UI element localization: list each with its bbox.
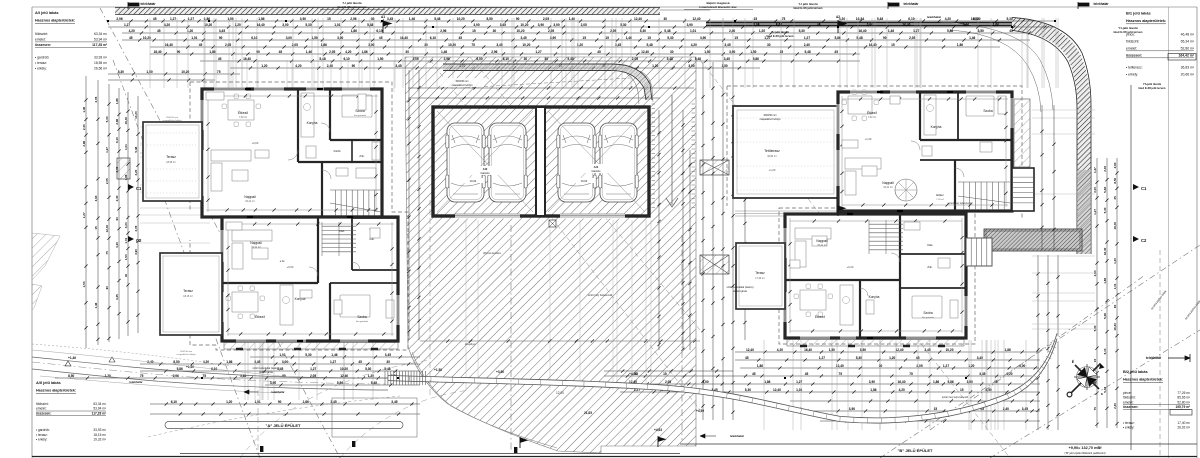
- svg-text:8,50: 8,50: [476, 57, 482, 61]
- building A lower stairs: [322, 226, 356, 252]
- svg-text:17,40 m²: 17,40 m²: [1177, 421, 1190, 425]
- svg-text:1,86: 1,86: [115, 98, 119, 104]
- svg-text:A2: A2: [836, 15, 840, 19]
- svg-text:5,48: 5,48: [856, 36, 862, 40]
- svg-text:1,86: 1,86: [933, 380, 939, 384]
- svg-text:3,45: 3,45: [500, 23, 506, 27]
- retaining wall darker lower zebra section: [1077, 170, 1091, 254]
- svg-text:Közl.: Közl.: [339, 229, 345, 233]
- svg-text:5,30: 5,30: [856, 356, 862, 360]
- svg-text:3,00: 3,00: [337, 36, 343, 40]
- terrace A upper: [143, 122, 202, 201]
- svg-text:16,40: 16,40: [859, 29, 867, 33]
- svg-text:8,50: 8,50: [1113, 177, 1117, 183]
- building A lower unit outer walls: [222, 217, 398, 341]
- svg-text:szomszédos telek: szomszédos telek: [1150, 289, 1168, 311]
- svg-text:33,93 m²: 33,93 m²: [94, 55, 108, 59]
- svg-text:+3,50: +3,50: [496, 370, 504, 374]
- svg-text:5,48: 5,48: [434, 17, 440, 21]
- svg-text:1,27: 1,27: [819, 356, 825, 360]
- svg-text:90: 90: [278, 400, 282, 404]
- extra road contours: [32, 350, 290, 393]
- svg-text:12,40: 12,40: [105, 225, 109, 233]
- svg-text:±0,00: ±0,00: [470, 179, 477, 183]
- svg-text:1,50: 1,50: [124, 254, 128, 260]
- svg-text:46,48 m²: 46,48 m²: [1181, 33, 1195, 37]
- svg-text:3,45: 3,45: [391, 400, 397, 404]
- svg-text:117,28 m²: 117,28 m²: [92, 411, 106, 415]
- svg-text:szórt burkolattal (kavics): szórt burkolattal (kavics): [253, 367, 280, 370]
- svg-text:1,01: 1,01: [254, 400, 260, 404]
- svg-text:90: 90: [105, 286, 109, 290]
- vertical chains garage east: [658, 110, 660, 350]
- building B lower partitions: [899, 215, 901, 337]
- svg-text:2,40: 2,40: [82, 124, 86, 130]
- svg-text:1,27: 1,27: [804, 36, 810, 40]
- svg-text:3,90: 3,90: [1093, 270, 1097, 276]
- svg-text:térkő hely fektetendő: térkő hely fektetendő: [588, 293, 613, 297]
- svg-text:45: 45: [817, 23, 821, 27]
- windows B lower: [800, 337, 830, 340]
- svg-text:53,94 m²: 53,94 m²: [93, 407, 106, 411]
- svg-text:1,86: 1,86: [1005, 348, 1011, 352]
- svg-text:1,86: 1,86: [1103, 278, 1107, 284]
- svg-text:2,40: 2,40: [1003, 407, 1009, 411]
- svg-text:5,86: 5,86: [776, 23, 782, 27]
- property boundary hatched band (top): [115, 8, 660, 15]
- svg-text:1,46: 1,46: [441, 50, 447, 54]
- svg-text:16,40: 16,40: [154, 50, 162, 54]
- svg-text:1,01: 1,01: [1113, 283, 1117, 289]
- svg-text:1,50: 1,50: [311, 36, 317, 40]
- svg-text:3,90: 3,90: [849, 407, 855, 411]
- svg-text:A1: A1: [381, 15, 385, 19]
- svg-text:1,86: 1,86: [258, 17, 264, 21]
- svg-text:telekhatár: telekhatár: [1146, 356, 1162, 360]
- svg-text:3,00: 3,00: [368, 43, 374, 47]
- svg-text:ismertetését átvezető rész: ismertetését átvezető rész: [699, 5, 737, 9]
- svg-text:3,00: 3,00: [282, 23, 288, 27]
- dashed site boundary diagonals: [100, 8, 340, 458]
- svg-text:3,90: 3,90: [134, 249, 138, 255]
- svg-text:5,48: 5,48: [1103, 313, 1107, 319]
- road level marks: [65, 357, 115, 366]
- value column separator (right): [1168, 7, 1170, 458]
- svg-text:30: 30: [544, 57, 548, 61]
- misc annotation labels: [440, 78, 484, 87]
- svg-text:4,20: 4,20: [345, 50, 351, 54]
- svg-text:lásd E-06 jelű terven: lásd E-06 jelű terven: [1113, 30, 1142, 34]
- svg-text:7,20 m²: 7,20 m²: [936, 198, 944, 201]
- svg-text:+1,20: +1,20: [769, 168, 776, 172]
- svg-text:2,96: 2,96: [350, 17, 356, 21]
- svg-text:12,40: 12,40: [896, 348, 904, 352]
- svg-text:1,46: 1,46: [306, 50, 312, 54]
- svg-text:emelet:: emelet:: [36, 407, 47, 411]
- car 3 (garage A/1): [557, 123, 596, 202]
- svg-text:10,20: 10,20: [973, 17, 981, 21]
- svg-text:1,86: 1,86: [209, 50, 215, 54]
- svg-text:90: 90: [1113, 304, 1117, 308]
- svg-text:ellátott járda: ellátott járda: [733, 290, 747, 293]
- svg-text:15: 15: [934, 407, 938, 411]
- garage doors (south): [455, 214, 520, 219]
- property line (right vertical): [1130, 85, 1132, 450]
- drain symbol below garage: [549, 220, 556, 227]
- svg-text:lásd E-06 jelű terven: lásd E-06 jelű terven: [337, 5, 366, 9]
- svg-text:2,40: 2,40: [1103, 166, 1107, 172]
- garden steps at path start: [385, 371, 426, 385]
- svg-text:90: 90: [177, 50, 181, 54]
- furniture A upper: [228, 100, 254, 120]
- road edge curves bottom-left: [32, 357, 388, 390]
- svg-text:150/150 mm: 150/150 mm: [455, 80, 468, 83]
- svg-text:2,05: 2,05: [753, 23, 759, 27]
- entry block east of B upper: [1012, 168, 1034, 211]
- svg-text:1,86: 1,86: [361, 50, 367, 54]
- svg-text:Szoba: Szoba: [357, 315, 367, 319]
- svg-text:2,05: 2,05: [543, 17, 549, 21]
- svg-text:5,30: 5,30: [118, 70, 124, 74]
- svg-text:5,48: 5,48: [804, 50, 810, 54]
- svg-text:4,20: 4,20: [115, 242, 119, 248]
- svg-text:45: 45: [1113, 196, 1117, 200]
- svg-text:30: 30: [124, 274, 128, 278]
- svg-text:• terasz:: • terasz:: [35, 61, 47, 65]
- svg-text:12,40: 12,40: [746, 348, 754, 352]
- svg-text:10,20: 10,20: [457, 17, 465, 21]
- svg-text:3,45: 3,45: [330, 400, 336, 404]
- svg-text:16,40: 16,40: [804, 348, 812, 352]
- terrace A lower: [160, 253, 222, 335]
- svg-text:Étkező: Étkező: [867, 110, 877, 115]
- svg-text:3,90: 3,90: [860, 348, 866, 352]
- svg-text:150/150 mm: 150/150 mm: [180, 351, 192, 353]
- svg-text:1,27: 1,27: [310, 367, 316, 371]
- svg-text:52,80 m²: 52,80 m²: [1177, 400, 1190, 404]
- svg-text:földszint:: földszint:: [36, 402, 49, 406]
- windows A lower: [236, 340, 266, 343]
- box outline bottom-center: [332, 398, 417, 437]
- svg-text:5,48: 5,48: [664, 29, 670, 33]
- svg-text:ellátott járda: ellátott járda: [259, 371, 273, 374]
- svg-text:45: 45: [153, 17, 157, 21]
- vertical chains at hatch west edge: [408, 70, 410, 340]
- svg-text:16,40: 16,40: [1103, 247, 1107, 255]
- svg-text:B/1 jelű lakás: B/1 jelű lakás: [1126, 11, 1151, 16]
- svg-text:8,50: 8,50: [978, 29, 984, 33]
- svg-text:12,40: 12,40: [641, 50, 649, 54]
- center vertical chains: [702, 62, 704, 420]
- hatched paved courtyard (central): [405, 57, 696, 453]
- svg-text:15: 15: [327, 17, 331, 21]
- svg-text:Terasz: Terasz: [183, 289, 193, 293]
- building B upper unit outer walls: [838, 92, 1012, 211]
- svg-text:1,46: 1,46: [331, 353, 337, 357]
- svg-text:4,20: 4,20: [124, 222, 128, 228]
- svg-text:épített hely fejlesztendő: épített hely fejlesztendő: [947, 202, 973, 205]
- text block A/I (top-left): [35, 10, 108, 71]
- windows A upper: [214, 88, 246, 91]
- svg-text:±0,00: ±0,00: [581, 179, 588, 183]
- svg-text:15: 15: [605, 36, 609, 40]
- svg-text:4,20: 4,20: [295, 64, 301, 68]
- svg-text:• erkély:: • erkély:: [1123, 426, 1135, 430]
- svg-text:4,20: 4,20: [164, 23, 170, 27]
- svg-text:5,86: 5,86: [947, 29, 953, 33]
- svg-text:2,40: 2,40: [327, 64, 333, 68]
- svg-text:45: 45: [218, 57, 222, 61]
- svg-text:30: 30: [879, 364, 883, 368]
- svg-text:Kélé: Kélé: [927, 243, 933, 247]
- svg-text:• terasz:: • terasz:: [1123, 421, 1135, 425]
- svg-text:10,20: 10,20: [204, 23, 212, 27]
- svg-text:2,05: 2,05: [225, 43, 231, 47]
- svg-text:15: 15: [780, 50, 784, 54]
- svg-text:1,01: 1,01: [191, 36, 197, 40]
- svg-text:1,20: 1,20: [1113, 258, 1117, 264]
- svg-text:30 jeső kezelés: 30 jeső kezelés: [483, 251, 502, 255]
- svg-text:3,90: 3,90: [869, 380, 875, 384]
- svg-text:1,86: 1,86: [764, 380, 770, 384]
- svg-text:1,20: 1,20: [889, 356, 895, 360]
- svg-text:1,27: 1,27: [1093, 209, 1097, 215]
- svg-text:telekhatár: telekhatár: [1093, 2, 1109, 6]
- svg-text:164,42 m²: 164,42 m²: [1179, 54, 1195, 58]
- svg-text:15: 15: [891, 43, 895, 47]
- svg-text:Terasz: Terasz: [166, 155, 176, 159]
- svg-text:5,48: 5,48: [1103, 187, 1107, 193]
- extra furniture A upper: [206, 92, 224, 100]
- svg-text:117,28 m²: 117,28 m²: [92, 43, 108, 47]
- svg-text:lásd E-06 jelű terven: lásd E-06 jelű terven: [793, 6, 822, 10]
- svg-text:16,40: 16,40: [898, 380, 906, 384]
- svg-text:2,05: 2,05: [916, 364, 922, 368]
- svg-text:1,86: 1,86: [757, 364, 763, 368]
- svg-text:1,01: 1,01: [334, 23, 340, 27]
- svg-text:köz.garázda: köz.garázda: [354, 114, 367, 117]
- svg-text:16,40: 16,40: [400, 36, 408, 40]
- svg-text:4,20: 4,20: [777, 348, 783, 352]
- svg-text:+1,40: +1,40: [186, 365, 194, 369]
- svg-text:90: 90: [883, 36, 887, 40]
- svg-text:4,20: 4,20: [129, 29, 135, 33]
- svg-text:+0,00: +0,00: [252, 141, 259, 145]
- svg-text:Tetőterasz: Tetőterasz: [764, 149, 780, 153]
- svg-text:3,00: 3,00: [282, 360, 288, 364]
- svg-text:Garázs: Garázs: [480, 171, 490, 175]
- svg-text:+4,59: +4,59: [696, 409, 704, 413]
- svg-text:"A" JELŰ ÉPÜLET: "A" JELŰ ÉPÜLET: [266, 423, 301, 428]
- roof overhang building A (dashed): [190, 82, 408, 350]
- svg-text:Konyha: Konyha: [307, 121, 318, 125]
- svg-text:"B" JELŰ ÉPÜLET: "B" JELŰ ÉPÜLET: [898, 448, 933, 453]
- svg-text:10,20: 10,20: [946, 348, 954, 352]
- svg-text:3,45: 3,45: [1022, 407, 1028, 411]
- entry steps east of B lower: [966, 238, 992, 266]
- svg-text:szórt burkolattal (kavics): szórt burkolattal (kavics): [727, 286, 754, 289]
- svg-text:Hasznos alapterületek:: Hasznos alapterületek:: [1126, 19, 1166, 23]
- svg-text:C2: C2: [136, 238, 142, 243]
- svg-text:1,20: 1,20: [652, 64, 658, 68]
- svg-text:45: 45: [129, 36, 133, 40]
- svg-text:telekhatár: telekhatár: [730, 434, 745, 438]
- svg-text:20,66 m²: 20,66 m²: [1181, 73, 1195, 77]
- svg-text:Hasznos alapterületek:: Hasznos alapterületek:: [36, 389, 76, 393]
- svg-text:2,96: 2,96: [82, 140, 86, 146]
- svg-text:2,05: 2,05: [94, 96, 98, 102]
- svg-text:5,86: 5,86: [753, 57, 759, 61]
- svg-text:6,10: 6,10: [343, 57, 349, 61]
- bottom title rules: [680, 443, 1197, 445]
- svg-text:15: 15: [734, 36, 738, 40]
- svg-text:2,05: 2,05: [412, 57, 418, 61]
- svg-text:telekhatár: telekhatár: [903, 2, 919, 6]
- svg-text:Előtér: Előtér: [936, 193, 943, 197]
- svg-text:5,86: 5,86: [240, 374, 246, 378]
- svg-text:kéz.garázda: kéz.garázda: [356, 320, 369, 323]
- svg-text:3,00: 3,00: [702, 380, 708, 384]
- svg-text:16,40: 16,40: [869, 43, 877, 47]
- svg-text:1,86: 1,86: [226, 360, 232, 364]
- svg-text:12,40: 12,40: [340, 374, 348, 378]
- svg-text:Zuh.: Zuh.: [359, 154, 364, 158]
- svg-text:45: 45: [1009, 29, 1013, 33]
- text block B/2 (bottom-right): [1123, 369, 1190, 430]
- svg-text:épület hely képviselendő: épület hely képviselendő: [942, 396, 969, 399]
- svg-text:1,01: 1,01: [690, 29, 696, 33]
- svg-text:2,05: 2,05: [548, 29, 554, 33]
- svg-text:33,93 m²: 33,93 m²: [93, 428, 106, 432]
- svg-text:+0,00: +0,00: [287, 265, 294, 269]
- svg-text:1,27: 1,27: [124, 23, 130, 27]
- svg-text:150/150 mm: 150/150 mm: [763, 114, 776, 117]
- svg-text:emelet:: emelet:: [1123, 400, 1134, 404]
- garage labels: [472, 166, 498, 175]
- svg-text:Fürdő: Fürdő: [334, 149, 341, 153]
- svg-text:csapadékvíz lefolyó: csapadékvíz lefolyó: [452, 84, 474, 87]
- svg-text:+9,90= 132,70 mBf: +9,90= 132,70 mBf: [1069, 446, 1103, 450]
- svg-text:földszint:: földszint:: [1126, 40, 1139, 44]
- svg-text:1,27: 1,27: [330, 360, 336, 364]
- svg-text:30: 30: [670, 50, 674, 54]
- svg-text:lásd E-28 jelű terven: lásd E-28 jelű terven: [1138, 86, 1165, 90]
- svg-text:63,34 m²: 63,34 m²: [94, 32, 108, 36]
- svg-text:telekhatár: telekhatár: [140, 2, 156, 6]
- svg-text:3,90: 3,90: [967, 380, 973, 384]
- svg-text:3,90: 3,90: [538, 23, 544, 27]
- terrace B (teliterasz): [733, 106, 838, 198]
- svg-text:5,30: 5,30: [667, 36, 673, 40]
- svg-text:1,27: 1,27: [913, 29, 919, 33]
- svg-text:7,32 m²: 7,32 m²: [868, 116, 876, 119]
- stadium outline "A" building: [165, 422, 403, 429]
- furniture B upper: [848, 96, 872, 114]
- svg-text:3,45: 3,45: [724, 57, 730, 61]
- south slab strip under B lower: [787, 340, 964, 347]
- terrace B lower: [736, 243, 785, 309]
- svg-text:+1,50: +1,50: [434, 368, 442, 372]
- svg-text:19,32 m²: 19,32 m²: [93, 438, 106, 442]
- svg-text:5,30: 5,30: [1103, 207, 1107, 213]
- svg-text:3,00: 3,00: [1093, 187, 1097, 193]
- svg-text:2,05: 2,05: [292, 43, 298, 47]
- svg-text:1,27: 1,27: [82, 212, 86, 218]
- bottom dimension chains (right): [735, 351, 1040, 353]
- svg-text:3,00: 3,00: [1019, 364, 1025, 368]
- windows B upper: [850, 91, 880, 94]
- svg-text:3,90: 3,90: [300, 17, 306, 21]
- svg-text:• erkély:: • erkély:: [1126, 73, 1138, 77]
- extension lines above plan: [150, 18, 1058, 88]
- svg-text:B/2 jelű lakás: B/2 jelű lakás: [1123, 369, 1148, 374]
- svg-text:5,30: 5,30: [1093, 325, 1097, 331]
- svg-text:2,96: 2,96: [491, 50, 497, 54]
- svg-text:45: 45: [379, 36, 383, 40]
- vertical reference dash lines: [510, 225, 512, 452]
- walk band between B terasz and lower unit: [735, 211, 838, 216]
- svg-text:5,86: 5,86: [177, 367, 183, 371]
- svg-text:• gardrób:: • gardrób:: [36, 428, 50, 432]
- svg-text:90: 90: [256, 50, 260, 54]
- svg-text:18,15 m²: 18,15 m²: [93, 433, 106, 437]
- svg-text:Étkező: Étkező: [238, 110, 248, 115]
- svg-text:1,27: 1,27: [170, 17, 176, 21]
- wall tick marks (sills): [245, 89, 953, 341]
- building A upper partitions: [297, 90, 299, 162]
- svg-text:• erkély:: • erkély:: [35, 67, 47, 71]
- svg-text:+0,20: +0,20: [847, 265, 854, 269]
- svg-text:szegéllyel: szegéllyel: [465, 343, 476, 346]
- svg-text:C1: C1: [136, 186, 142, 191]
- svg-text:53,94 m²: 53,94 m²: [94, 38, 108, 42]
- svg-text:16,40: 16,40: [1113, 222, 1117, 230]
- svg-text:1,20: 1,20: [226, 400, 232, 404]
- svg-text:1,46: 1,46: [409, 17, 415, 21]
- svg-text:90: 90: [219, 36, 223, 40]
- svg-text:75: 75: [217, 70, 221, 74]
- svg-text:1,86: 1,86: [993, 23, 999, 27]
- interior dimension chains A upper: [206, 95, 378, 97]
- svg-text:2,40: 2,40: [1113, 403, 1117, 409]
- svg-text:16,84: 16,84: [856, 17, 865, 21]
- svg-text:3,45: 3,45: [385, 353, 391, 357]
- svg-text:5,86: 5,86: [947, 380, 953, 384]
- svg-text:8,50: 8,50: [486, 17, 492, 21]
- svg-text:3,45: 3,45: [115, 294, 119, 300]
- hatched strip, lower-left corner: [32, 233, 60, 280]
- svg-text:5,48: 5,48: [877, 17, 883, 21]
- bottom dimension chains (left): [250, 356, 420, 358]
- svg-text:2,96: 2,96: [440, 29, 446, 33]
- building A upper unit outer walls: [202, 89, 382, 217]
- svg-text:1,46: 1,46: [82, 106, 86, 112]
- svg-text:12,40: 12,40: [773, 388, 781, 392]
- svg-text:telekhatár: telekhatár: [927, 15, 942, 19]
- svg-text:77,26 m²: 77,26 m²: [1177, 391, 1190, 395]
- svg-text:2,05: 2,05: [909, 36, 915, 40]
- svg-text:1,27: 1,27: [535, 50, 541, 54]
- svg-text:6,10: 6,10: [115, 137, 119, 143]
- svg-text:6,10: 6,10: [908, 17, 914, 21]
- svg-text:1,86: 1,86: [303, 400, 309, 404]
- svg-text:18,55 m²: 18,55 m²: [166, 161, 176, 164]
- svg-text:32,21 m²: 32,21 m²: [245, 200, 255, 203]
- svg-text:csapadékvíz lefolyó: csapadékvíz lefolyó: [176, 354, 196, 356]
- svg-text:5,48: 5,48: [667, 57, 673, 61]
- svg-text:Terasz: Terasz: [755, 271, 765, 275]
- svg-text:30: 30: [493, 29, 497, 33]
